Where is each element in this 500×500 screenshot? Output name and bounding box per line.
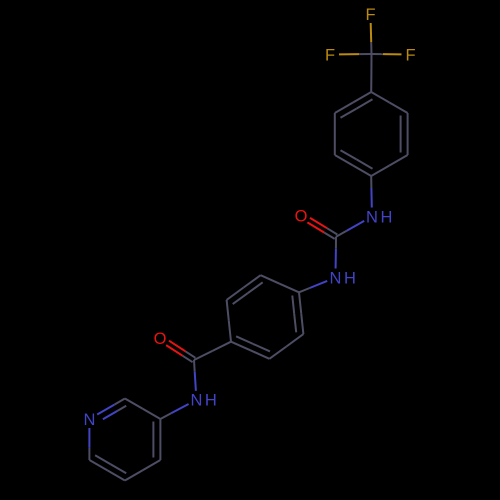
svg-text:H: H bbox=[205, 392, 217, 410]
bond B6-B1 bbox=[261, 275, 299, 292]
bond B4-B5 bbox=[227, 300, 231, 342]
svg-text:H: H bbox=[381, 208, 393, 226]
svg-text:N: N bbox=[366, 208, 378, 226]
svg-text:O: O bbox=[295, 207, 308, 225]
bond P4-P5 bbox=[125, 460, 160, 481]
bond A4-N1 bbox=[370, 176, 373, 208]
bond B5-B6 bbox=[227, 275, 263, 304]
bond A5-A6 bbox=[334, 113, 336, 155]
bond C1-N2 bbox=[335, 237, 337, 269]
svg-text:F: F bbox=[405, 46, 415, 64]
bond C7-A1 bbox=[370, 54, 372, 92]
bond A1-A2 bbox=[371, 92, 407, 113]
bond N1-C1 bbox=[336, 221, 364, 237]
svg-text:H: H bbox=[344, 269, 356, 287]
bond A4-A5 bbox=[335, 150, 373, 176]
bond B3-B4 bbox=[231, 336, 270, 359]
bond B2-B3 bbox=[269, 334, 303, 359]
svg-text:O: O bbox=[154, 330, 167, 348]
bond B4-C2 bbox=[194, 342, 231, 360]
bond P1-P2 bbox=[97, 399, 126, 420]
bond P3-P4 bbox=[153, 419, 160, 460]
bond P6-P1 bbox=[88, 428, 90, 460]
bond P2-P3 bbox=[125, 399, 160, 420]
bond A6-A1 bbox=[335, 92, 373, 118]
bond B1-B2 bbox=[292, 292, 303, 334]
bond C2-N3 bbox=[194, 360, 196, 391]
bond A2-A3 bbox=[401, 113, 408, 155]
bond N2-B1 bbox=[299, 281, 327, 292]
svg-text:N: N bbox=[83, 411, 95, 429]
bond C2-O2 bbox=[166, 341, 195, 363]
bond C7-F1 bbox=[370, 23, 373, 54]
bond C1-O1 bbox=[307, 218, 337, 239]
svg-text:F: F bbox=[325, 46, 335, 64]
bond P5-P6 bbox=[89, 455, 126, 480]
bond C7-F3 bbox=[372, 53, 402, 55]
svg-text:F: F bbox=[365, 6, 375, 24]
bond N3-P3 bbox=[160, 404, 188, 419]
bond C7-F2 bbox=[339, 53, 372, 55]
bond A3-A4 bbox=[371, 155, 407, 176]
svg-text:N: N bbox=[330, 269, 342, 287]
svg-text:N: N bbox=[191, 392, 203, 410]
